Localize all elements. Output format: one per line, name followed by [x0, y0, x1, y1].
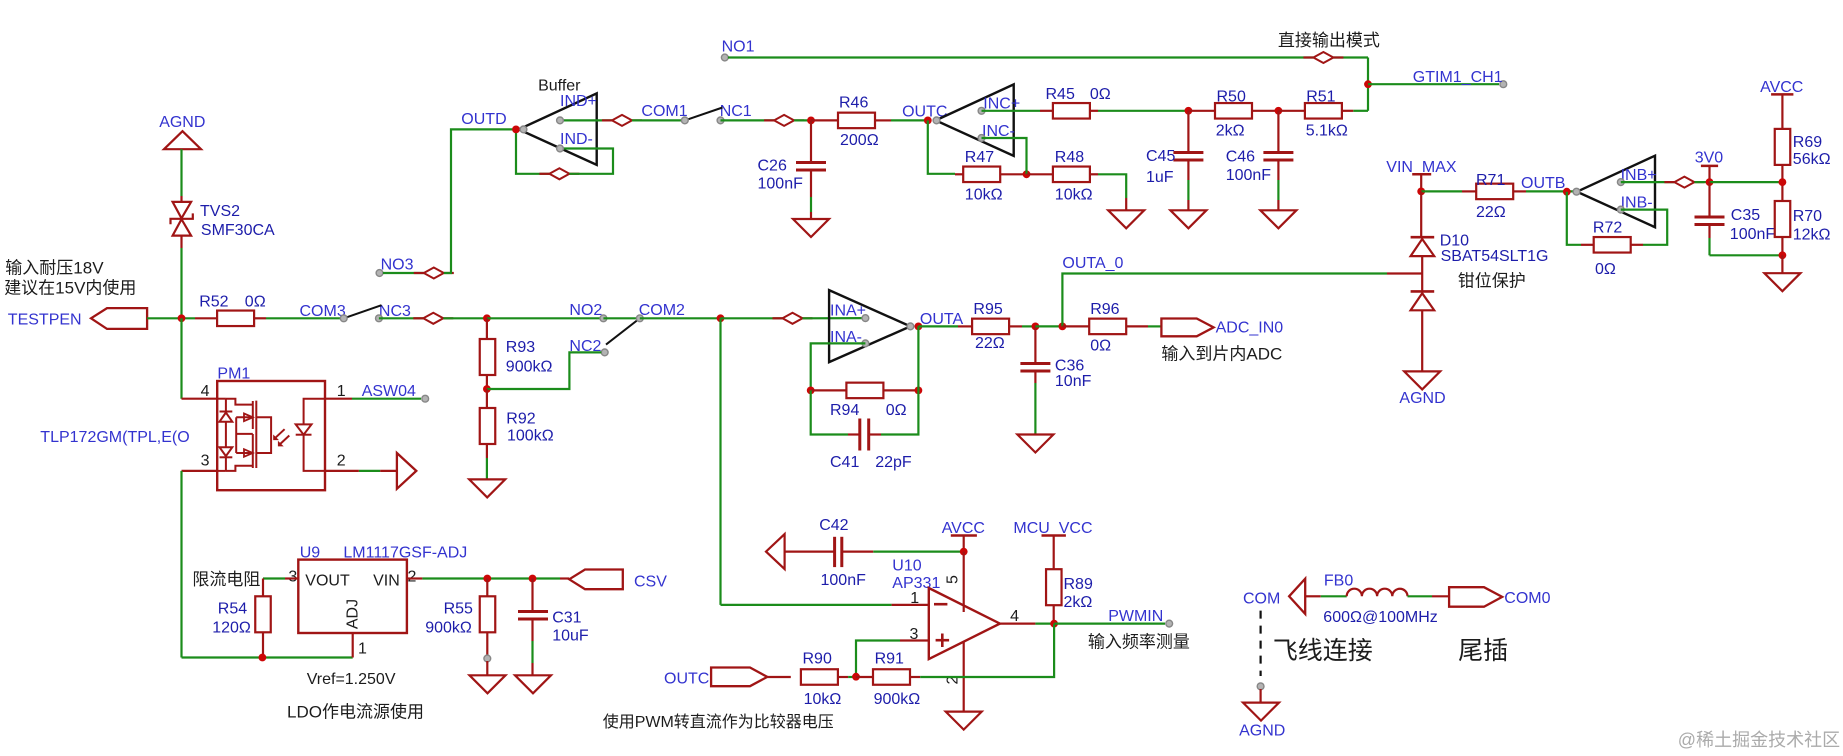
wire	[928, 120, 955, 173]
port COM0	[1449, 587, 1551, 607]
label TLP172GM	[40, 429, 189, 446]
wire	[147, 317, 195, 319]
resistor R70	[1775, 201, 1831, 244]
wire	[1353, 110, 1368, 112]
svg-text:GTIM1_CH1: GTIM1_CH1	[1413, 69, 1503, 86]
resistor R89	[1046, 569, 1093, 611]
wire	[891, 119, 928, 121]
resistor R54	[212, 579, 271, 658]
node	[1779, 251, 1787, 259]
wire	[383, 272, 424, 274]
svg-text:100nF: 100nF	[821, 572, 867, 589]
node	[915, 387, 923, 395]
node	[1364, 80, 1372, 88]
node OUTD	[512, 125, 520, 133]
svg-text:1: 1	[337, 383, 346, 400]
node	[1050, 620, 1058, 628]
resistor R95	[958, 301, 1022, 352]
svg-text:1uF: 1uF	[1146, 169, 1174, 186]
svg-text:C45: C45	[1146, 148, 1175, 165]
node OUTC	[902, 104, 947, 125]
wire	[486, 375, 488, 389]
svg-text:PWMIN: PWMIN	[1108, 608, 1163, 625]
ground	[469, 479, 505, 497]
svg-text:600Ω@100MHz: 600Ω@100MHz	[1323, 609, 1437, 626]
svg-text:10nF: 10nF	[1055, 373, 1092, 390]
wire	[1694, 181, 1709, 183]
wire	[1621, 210, 1667, 245]
wire	[721, 604, 892, 606]
resistor R92	[480, 389, 554, 445]
svg-text:R51: R51	[1306, 89, 1335, 106]
resistor R69	[1775, 129, 1831, 168]
pin	[1257, 683, 1264, 690]
svg-text:NO2: NO2	[569, 302, 602, 319]
svg-text:AGND: AGND	[159, 114, 205, 131]
ground	[946, 712, 982, 730]
power flag AGND (top left)	[159, 114, 205, 160]
node	[1706, 178, 1714, 186]
wire	[180, 248, 182, 318]
wire	[811, 390, 848, 434]
resistor R47	[955, 149, 1027, 204]
svg-text:12kΩ: 12kΩ	[1793, 227, 1831, 244]
pin NO3	[376, 257, 414, 277]
ground (left)	[766, 534, 785, 569]
wire	[1022, 325, 1035, 327]
svg-text:R90: R90	[803, 651, 832, 668]
svg-text:1: 1	[358, 641, 367, 658]
svg-text:R54: R54	[218, 601, 247, 618]
note	[1273, 637, 1508, 665]
resistor R71	[1462, 172, 1526, 221]
svg-text:R69: R69	[1793, 134, 1822, 151]
wire (dashed)	[1259, 611, 1261, 676]
node	[807, 387, 815, 395]
svg-text:R45: R45	[1046, 86, 1075, 103]
ground AGND	[1239, 689, 1285, 740]
svg-text:COM3: COM3	[300, 303, 346, 320]
op-amp U_INB	[1573, 156, 1657, 228]
ground	[1260, 210, 1296, 228]
svg-text:限流电阻: 限流电阻	[192, 570, 260, 589]
capacitor C26	[758, 120, 827, 197]
svg-text:C46: C46	[1226, 149, 1255, 166]
note	[287, 701, 424, 721]
svg-text:输入到片内ADC: 输入到片内ADC	[1161, 345, 1282, 364]
svg-text:SMF30CA: SMF30CA	[201, 222, 275, 239]
svg-text:100nF: 100nF	[758, 176, 804, 193]
power flag 3V0	[1695, 150, 1724, 183]
node TESTPEN junction	[178, 314, 186, 322]
node	[1023, 170, 1031, 178]
svg-text:4: 4	[1010, 608, 1019, 625]
op-amp U_INA	[829, 290, 914, 362]
node	[1059, 323, 1067, 331]
svg-text:22Ω: 22Ω	[975, 335, 1005, 352]
node	[483, 314, 491, 322]
pin 1 wire	[892, 604, 929, 606]
svg-text:INA+: INA+	[830, 302, 866, 319]
wire	[982, 138, 1027, 174]
svg-text:飞线连接: 飞线连接	[1273, 637, 1373, 665]
wire OUTA_0	[1062, 255, 1387, 326]
port OUTC	[664, 668, 767, 688]
svg-text:0Ω: 0Ω	[1090, 338, 1111, 355]
svg-text:尾插: 尾插	[1458, 637, 1508, 665]
svg-text:建议在15V内使用: 建议在15V内使用	[4, 278, 136, 298]
svg-text:22pF: 22pF	[875, 454, 912, 471]
switch COM2/NC2	[569, 302, 685, 356]
wire	[487, 317, 604, 319]
svg-text:OUTB: OUTB	[1521, 175, 1565, 192]
wire	[918, 325, 958, 327]
svg-text:2: 2	[408, 569, 417, 586]
port COM	[1243, 579, 1305, 614]
no-connect flag	[764, 115, 804, 126]
svg-text:C41: C41	[830, 454, 859, 471]
wire	[1710, 181, 1783, 183]
svg-text:C35: C35	[1731, 207, 1760, 224]
svg-text:U10: U10	[892, 558, 921, 575]
pin	[520, 117, 563, 152]
svg-text:NO3: NO3	[381, 257, 414, 274]
svg-text:FB0: FB0	[1324, 572, 1353, 589]
svg-text:900kΩ: 900kΩ	[425, 619, 472, 636]
wire	[1125, 198, 1127, 210]
svg-text:R96: R96	[1090, 301, 1119, 318]
wire	[486, 444, 488, 479]
svg-text:Vref=1.250V: Vref=1.250V	[307, 671, 396, 688]
wire	[1035, 325, 1062, 327]
resistor R72	[1581, 220, 1643, 278]
port ADC_IN0	[1161, 319, 1283, 337]
wire	[1710, 254, 1783, 256]
wire	[640, 317, 721, 319]
comparator U10 AP331	[892, 552, 1019, 712]
wire	[721, 317, 783, 319]
wire	[379, 317, 423, 319]
node	[1185, 107, 1193, 115]
svg-text:R50: R50	[1217, 89, 1246, 106]
resistor R96	[1062, 301, 1148, 355]
svg-text:22Ω: 22Ω	[1476, 204, 1506, 221]
note text	[4, 259, 136, 298]
wire	[632, 119, 685, 121]
wire	[917, 326, 919, 390]
wire	[810, 197, 812, 219]
switch COM3/NC3	[300, 303, 412, 322]
svg-text:900kΩ: 900kΩ	[874, 691, 921, 708]
watermark	[1678, 730, 1840, 750]
svg-text:ASW04: ASW04	[362, 383, 416, 400]
node	[259, 654, 267, 662]
wire	[444, 129, 516, 273]
svg-text:OUTC: OUTC	[664, 671, 709, 688]
node OUTA	[915, 311, 964, 330]
op-amp U_INC	[933, 84, 1020, 155]
svg-text:120Ω: 120Ω	[212, 619, 251, 636]
svg-text:AGND: AGND	[1239, 723, 1285, 740]
pin 3 wire	[856, 641, 929, 677]
no-connect flag	[413, 313, 453, 324]
wire	[560, 119, 612, 121]
svg-text:COM: COM	[1243, 590, 1280, 607]
svg-text:钳位保护: 钳位保护	[1458, 272, 1526, 291]
ground	[1108, 210, 1144, 228]
pin GTIM1_CH1	[1413, 69, 1507, 88]
wire	[1368, 83, 1499, 85]
svg-text:OUTD: OUTD	[461, 111, 506, 128]
svg-text:R72: R72	[1593, 220, 1622, 237]
diode D10b	[1411, 272, 1526, 372]
pin NO2	[569, 302, 606, 322]
wire	[422, 577, 560, 579]
ground	[515, 675, 551, 693]
svg-text:COM1: COM1	[641, 103, 687, 120]
svg-text:0Ω: 0Ω	[886, 402, 907, 419]
svg-text:R52: R52	[199, 294, 228, 311]
wire	[180, 471, 182, 658]
wire	[920, 624, 1054, 677]
svg-text:R48: R48	[1055, 149, 1084, 166]
svg-text:R47: R47	[965, 149, 994, 166]
ground	[1764, 273, 1800, 291]
switch COM1/NC1	[641, 103, 751, 124]
pin	[484, 655, 491, 662]
svg-text:C36: C36	[1055, 357, 1084, 374]
wire	[1148, 325, 1161, 327]
capacitor C35	[1695, 182, 1776, 255]
ground	[793, 219, 829, 237]
svg-text:LDO作电流源使用: LDO作电流源使用	[287, 701, 424, 721]
svg-text:3V0: 3V0	[1695, 150, 1724, 167]
ground	[1017, 435, 1053, 453]
node	[717, 314, 725, 322]
note	[307, 671, 396, 688]
wire	[1277, 180, 1279, 210]
no-connect flag	[773, 313, 813, 324]
wire	[719, 318, 721, 605]
svg-text:TLP172GM(TPL,E(O: TLP172GM(TPL,E(O	[40, 429, 189, 446]
svg-text:100kΩ: 100kΩ	[507, 428, 554, 445]
wire	[1034, 383, 1036, 435]
svg-text:900kΩ: 900kΩ	[506, 359, 553, 376]
resistor R50	[1188, 89, 1278, 140]
label 限流电阻	[192, 570, 260, 589]
resistor R48	[1027, 149, 1099, 204]
svg-text:AGND: AGND	[1399, 390, 1445, 407]
svg-text:VOUT: VOUT	[305, 573, 350, 590]
node	[807, 117, 815, 125]
svg-text:2kΩ: 2kΩ	[1216, 123, 1245, 140]
wire	[1098, 174, 1126, 198]
svg-text:ADJ: ADJ	[345, 599, 362, 629]
svg-text:200Ω: 200Ω	[840, 132, 879, 149]
wire NO1	[728, 58, 1368, 111]
node	[1275, 107, 1283, 115]
resistor R91	[856, 651, 920, 709]
svg-text:3: 3	[201, 453, 210, 470]
svg-text:10kΩ: 10kΩ	[804, 691, 842, 708]
svg-text:5.1kΩ: 5.1kΩ	[1306, 123, 1348, 140]
ground AGND	[1399, 371, 1445, 407]
resistor R52	[195, 294, 266, 327]
capacitor C45	[1146, 111, 1203, 186]
svg-text:C26: C26	[758, 158, 787, 175]
wire	[1621, 181, 1675, 183]
svg-text:ADC_IN0: ADC_IN0	[1216, 320, 1284, 337]
svg-text:100nF: 100nF	[1730, 226, 1776, 243]
ground	[1170, 210, 1206, 228]
port CSV	[560, 570, 667, 591]
svg-text:IND-: IND-	[560, 131, 593, 148]
svg-text:10uF: 10uF	[552, 628, 589, 645]
note	[1161, 345, 1282, 364]
wire	[180, 318, 182, 398]
svg-text:R89: R89	[1064, 576, 1093, 593]
svg-text:NC1: NC1	[720, 103, 752, 120]
svg-text:100nF: 100nF	[1226, 167, 1272, 184]
resistor R90	[767, 651, 848, 709]
svg-text:TVS2: TVS2	[200, 203, 240, 220]
wire	[811, 343, 866, 390]
svg-text:使用PWM转直流作为比较器电压: 使用PWM转直流作为比较器电压	[603, 713, 834, 731]
wire	[603, 317, 639, 319]
svg-text:输入耐压18V: 输入耐压18V	[5, 259, 104, 278]
wire	[1781, 165, 1783, 201]
svg-text:R94: R94	[830, 402, 859, 419]
power flag AVCC	[1760, 79, 1803, 129]
wire	[1098, 110, 1188, 112]
no-connect flag	[1664, 177, 1704, 188]
capacitor C31	[518, 579, 589, 676]
IC U9 LM1117GSF-ADJ	[263, 545, 467, 658]
resistor R94	[811, 383, 919, 419]
no-connect flag	[414, 268, 454, 279]
node	[483, 385, 491, 393]
wire	[848, 676, 856, 678]
wire	[1781, 255, 1783, 273]
resistor R51	[1278, 89, 1353, 140]
pin NO1	[721, 39, 754, 61]
wire	[794, 119, 811, 121]
svg-text:R55: R55	[444, 601, 473, 618]
svg-text:R70: R70	[1793, 208, 1822, 225]
pin 4 wire	[1000, 622, 1054, 624]
wire	[1053, 605, 1055, 623]
no-connect flag 直接输出模式	[1278, 31, 1380, 63]
svg-text:0Ω: 0Ω	[1595, 261, 1616, 278]
wire	[1187, 180, 1189, 210]
wire	[516, 129, 549, 173]
wire	[487, 352, 601, 389]
svg-text:C31: C31	[552, 610, 581, 627]
svg-text:10kΩ: 10kΩ	[965, 187, 1003, 204]
pin 1 ASW04	[325, 383, 429, 402]
no-connect flag	[602, 115, 642, 126]
svg-text:0Ω: 0Ω	[245, 294, 266, 311]
svg-text:SBAT54SLT1G: SBAT54SLT1G	[1441, 248, 1549, 265]
power flag VIN_MAX	[1386, 159, 1457, 191]
wire	[182, 656, 353, 658]
svg-text:0Ω: 0Ω	[1090, 86, 1111, 103]
wire	[982, 110, 1041, 112]
svg-text:R46: R46	[839, 95, 868, 112]
node	[529, 575, 537, 583]
svg-text:R71: R71	[1476, 172, 1505, 189]
node OUTB	[1521, 175, 1571, 196]
wire	[873, 550, 963, 552]
wire	[443, 317, 487, 319]
svg-text:R93: R93	[506, 339, 535, 356]
svg-text:CSV: CSV	[634, 574, 667, 591]
node	[483, 575, 491, 583]
wire	[1054, 622, 1165, 624]
wire OUTA_0 to D10	[1387, 272, 1422, 274]
svg-text:COM2: COM2	[639, 302, 685, 319]
svg-text:TESTPEN: TESTPEN	[8, 312, 82, 329]
svg-text:输入频率测量: 输入频率测量	[1088, 632, 1190, 651]
svg-text:2kΩ: 2kΩ	[1064, 594, 1093, 611]
node	[1032, 323, 1040, 331]
diode D10a	[1411, 191, 1549, 273]
optocoupler PM1	[182, 366, 346, 491]
wire	[486, 661, 488, 675]
svg-text:OUTA_0: OUTA_0	[1062, 255, 1123, 272]
svg-text:C42: C42	[819, 517, 848, 534]
power flag MCU_VCC	[1013, 520, 1092, 569]
node	[1779, 178, 1787, 186]
svg-text:3: 3	[288, 569, 297, 586]
capacitor C36	[1020, 326, 1091, 390]
svg-text:2: 2	[337, 453, 346, 470]
svg-text:5: 5	[945, 575, 962, 584]
wire	[1781, 237, 1783, 255]
power flag AVCC	[942, 520, 985, 552]
resistor R46	[811, 95, 891, 149]
svg-text:VIN: VIN	[373, 573, 400, 590]
svg-text:NO1: NO1	[722, 39, 755, 56]
wire	[881, 390, 918, 434]
svg-text:4: 4	[201, 383, 210, 400]
resistor R55	[425, 579, 495, 657]
svg-text:56kΩ: 56kΩ	[1793, 151, 1831, 168]
svg-text:@稀土掘金技术社区: @稀土掘金技术社区	[1678, 730, 1840, 750]
svg-text:R95: R95	[973, 301, 1002, 318]
op-amp Buffer	[461, 78, 597, 165]
svg-text:COM0: COM0	[1504, 590, 1550, 607]
svg-text:IND+: IND+	[560, 93, 597, 110]
TVS diode TVS2	[171, 196, 276, 248]
capacitor C41	[830, 419, 912, 472]
ground	[470, 675, 506, 693]
note	[1088, 632, 1190, 651]
resistor R93	[480, 318, 553, 375]
svg-text:10kΩ: 10kΩ	[1055, 187, 1093, 204]
svg-text:直接输出模式: 直接输出模式	[1278, 31, 1380, 50]
resistor R45	[1040, 86, 1111, 119]
pin PWMIN	[1108, 608, 1172, 627]
wire	[266, 317, 344, 319]
wire	[180, 160, 182, 196]
wire	[803, 317, 866, 319]
svg-text:R91: R91	[875, 651, 904, 668]
node	[852, 673, 860, 681]
wire	[1567, 192, 1581, 245]
pin 2 port	[325, 453, 416, 489]
capacitor C42	[785, 517, 874, 589]
